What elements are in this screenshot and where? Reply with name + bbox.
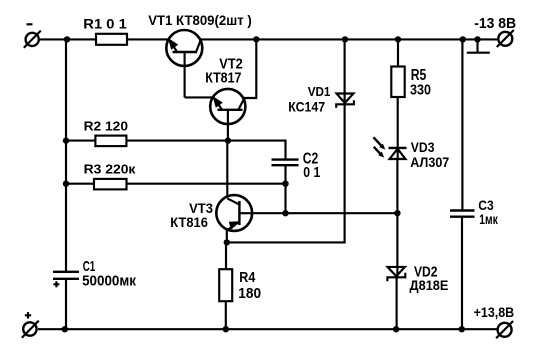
svg-text:R3 220к: R3 220к [84, 161, 136, 176]
wire VT3 base line right to VD2 line [252, 212, 397, 214]
resistor R1 [96, 34, 127, 45]
wire left bus lower [65, 279, 67, 329]
resistor R4 [219, 269, 232, 301]
minus polarity mark [27, 23, 33, 25]
node junction VT2 collector / top rail [253, 36, 259, 42]
wire VD2 to bottom rail [396, 277, 398, 329]
wire left bus upper [65, 39, 67, 271]
terminal XS4 (output plus, bottom-right) [496, 321, 513, 338]
capacitor C2 [272, 160, 299, 166]
svg-text:КС147: КС147 [288, 99, 325, 115]
wire VT1 base to VT2 emitter [185, 96, 214, 98]
transistor VT3 [216, 195, 252, 242]
wire R1 to VT1 [127, 38, 170, 40]
terminal XS1 (input minus, top-left) [24, 31, 41, 48]
plus polarity mark C1 [53, 281, 59, 287]
node junction on VT3 base line [282, 210, 288, 216]
node junction R4 / bottom rail [223, 326, 229, 332]
wire VT3 emitter line to VD1 [227, 108, 345, 242]
node junction left bus / R2 [63, 137, 69, 143]
wire R4 top [225, 242, 227, 269]
wire R3 line right [127, 183, 286, 185]
plus polarity mark [25, 312, 31, 318]
node junction VT3 base line / zener line [394, 210, 400, 216]
wire top rail: VT1 to terminal top-right [199, 38, 499, 40]
wire C3 bottom [461, 217, 463, 330]
svg-text:0 1: 0 1 [303, 164, 320, 181]
svg-text:180: 180 [238, 285, 261, 302]
zener diode VD1 [336, 94, 354, 109]
node junction C1 / bottom rail [62, 326, 68, 332]
node junction VD1 / top rail [342, 36, 348, 42]
node junction C3 / bottom rail [459, 326, 465, 332]
wire R3 line left [66, 183, 94, 185]
chassis stub [467, 39, 490, 52]
svg-text:VT1 КТ809(2шт ): VT1 КТ809(2шт ) [148, 12, 252, 28]
svg-text:VD1: VD1 [308, 84, 331, 99]
svg-text:C1: C1 [83, 258, 96, 275]
wire C3 top [461, 39, 463, 210]
terminal XS2 (output minus, top-right) [497, 30, 514, 47]
svg-text:1мк: 1мк [479, 212, 498, 227]
wire VT2 collector up to top rail [244, 39, 256, 98]
transistor VT2 [210, 89, 245, 141]
node junction C3 / top rail [460, 36, 466, 42]
svg-text:-13 8В: -13 8В [474, 15, 516, 32]
svg-text:R2 120: R2 120 [84, 118, 128, 133]
wire VT2 base down to VT3 collector [226, 141, 228, 196]
node junction VT3 emitter / R4 [224, 239, 230, 245]
svg-text:R1 0 1: R1 0 1 [83, 16, 127, 31]
capacitor C1 [53, 272, 79, 279]
svg-text:КТ816: КТ816 [170, 214, 208, 230]
wire R5 top [397, 39, 399, 66]
svg-text:VD3: VD3 [411, 139, 435, 155]
wire node down to VT3 base line [284, 184, 286, 214]
zener diode VD2 [387, 267, 405, 281]
svg-text:+13,8В: +13,8В [474, 304, 515, 320]
svg-text:330: 330 [410, 82, 431, 99]
node junction VD2 / bottom rail [393, 326, 399, 332]
svg-text:R4: R4 [239, 269, 256, 286]
resistor R3 [94, 179, 127, 190]
node junction R5 / top rail [395, 36, 401, 42]
svg-text:Д818Е: Д818Е [410, 277, 449, 293]
wire R5 to VD3 [397, 97, 399, 160]
terminal XS3 (input plus, bottom-left) [22, 321, 39, 338]
node junction VT2 base on R2 line [225, 137, 231, 143]
resistor R2 [95, 136, 126, 147]
svg-text:C3: C3 [478, 198, 494, 213]
wire VD1 top to rail [344, 39, 346, 93]
wire bottom rail [38, 328, 498, 330]
node junction left bus / R3 [63, 181, 69, 187]
wire R2 line right to C2 branch [127, 141, 286, 160]
transistor VT1 [166, 30, 202, 97]
wire C2 bottom to R3 node [284, 165, 286, 184]
LED VD3 [374, 137, 407, 159]
wire R4 bottom [225, 301, 227, 329]
node junction R3/C2 [282, 181, 288, 187]
wire top rail: terminal to R1 [39, 38, 96, 40]
node junction chassis stub / top rail [474, 36, 480, 42]
node junction top-left bus [64, 36, 70, 42]
capacitor C3 [450, 211, 475, 217]
wire VD3 to VD2 [396, 159, 398, 277]
svg-text:50000мк: 50000мк [82, 274, 137, 290]
svg-text:АЛ307: АЛ307 [410, 154, 449, 170]
wire R2 line left [66, 140, 95, 142]
resistor R5 [391, 67, 404, 98]
svg-text:КТ817: КТ817 [205, 71, 241, 87]
